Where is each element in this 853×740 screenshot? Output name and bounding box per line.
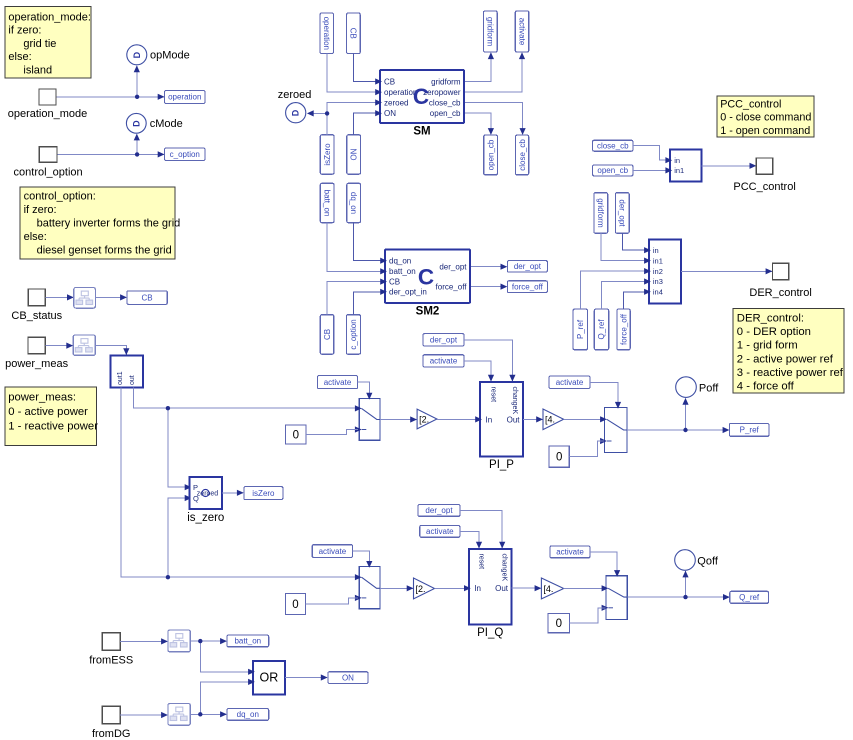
svg-text:dq_on: dq_on bbox=[237, 710, 259, 719]
svg-text:zeroed: zeroed bbox=[278, 89, 312, 101]
svg-text:Q_ref: Q_ref bbox=[739, 593, 760, 602]
svg-text:CB: CB bbox=[323, 329, 332, 340]
svg-text:activate: activate bbox=[556, 378, 584, 387]
svg-text:open_cb: open_cb bbox=[430, 109, 461, 118]
svg-text:ON: ON bbox=[342, 673, 354, 682]
svg-text:SM: SM bbox=[413, 126, 430, 138]
svg-text:operation: operation bbox=[322, 17, 331, 50]
svg-text:is_zero: is_zero bbox=[187, 512, 224, 524]
svg-text:zeroed: zeroed bbox=[197, 491, 219, 498]
svg-text:1 - reactive power: 1 - reactive power bbox=[8, 421, 98, 433]
svg-text:in3: in3 bbox=[653, 277, 663, 286]
svg-text:[2.: [2. bbox=[416, 584, 426, 594]
svg-text:0: 0 bbox=[292, 599, 298, 611]
svg-text:0: 0 bbox=[556, 452, 562, 464]
svg-text:CB: CB bbox=[349, 28, 358, 39]
svg-text:batt_on: batt_on bbox=[389, 267, 416, 276]
svg-text:in: in bbox=[653, 246, 659, 255]
svg-text:control_option:: control_option: bbox=[24, 191, 96, 203]
svg-text:4 - force off: 4 - force off bbox=[737, 381, 795, 393]
svg-text:changeK: changeK bbox=[501, 554, 508, 582]
svg-text:close_cb: close_cb bbox=[429, 98, 461, 107]
svg-text:open_cb: open_cb bbox=[486, 139, 495, 170]
svg-text:gridform: gridform bbox=[486, 17, 495, 47]
svg-text:3 - reactive power ref: 3 - reactive power ref bbox=[737, 367, 844, 379]
svg-text:opMode: opMode bbox=[150, 50, 190, 62]
svg-text:der_opt: der_opt bbox=[618, 199, 627, 227]
svg-text:else:: else: bbox=[8, 51, 31, 63]
svg-text:in1: in1 bbox=[653, 256, 663, 265]
svg-text:activate: activate bbox=[430, 357, 458, 366]
svg-text:reset: reset bbox=[477, 554, 484, 570]
svg-text:grid tie: grid tie bbox=[23, 38, 56, 50]
svg-text:c_option: c_option bbox=[170, 150, 200, 159]
svg-text:fromDG: fromDG bbox=[92, 728, 131, 740]
svg-text:der_opt: der_opt bbox=[514, 262, 542, 271]
svg-text:PI_Q: PI_Q bbox=[477, 627, 503, 639]
svg-text:in1: in1 bbox=[674, 166, 684, 175]
svg-text:OR: OR bbox=[260, 671, 279, 685]
svg-text:operation_mode: operation_mode bbox=[8, 108, 88, 120]
svg-text:CB: CB bbox=[142, 293, 153, 302]
svg-text:ON: ON bbox=[349, 148, 358, 160]
svg-text:0 - DER option: 0 - DER option bbox=[737, 326, 811, 338]
svg-text:[4.: [4. bbox=[545, 415, 555, 425]
svg-text:close_cb: close_cb bbox=[597, 141, 629, 150]
svg-text:activate: activate bbox=[319, 547, 347, 556]
svg-text:P_ref: P_ref bbox=[740, 426, 760, 435]
svg-text:PCC_control: PCC_control bbox=[733, 181, 795, 193]
svg-text:activate: activate bbox=[556, 548, 584, 557]
svg-text:reset: reset bbox=[489, 387, 496, 403]
svg-text:close_cb: close_cb bbox=[518, 139, 527, 171]
svg-text:D: D bbox=[131, 120, 141, 127]
svg-text:CB: CB bbox=[384, 77, 395, 86]
svg-text:Q_ref: Q_ref bbox=[597, 319, 606, 340]
svg-text:PI_P: PI_P bbox=[489, 459, 514, 471]
svg-text:changeK: changeK bbox=[511, 387, 518, 415]
svg-text:island: island bbox=[23, 64, 52, 76]
svg-text:In: In bbox=[474, 584, 481, 593]
svg-text:C: C bbox=[418, 265, 434, 290]
svg-text:dq_on: dq_on bbox=[389, 257, 411, 266]
svg-text:force_off: force_off bbox=[512, 282, 544, 291]
svg-text:dq_on: dq_on bbox=[349, 192, 358, 214]
svg-text:0: 0 bbox=[293, 430, 299, 442]
svg-text:batt_on: batt_on bbox=[234, 637, 261, 646]
svg-text:gridform: gridform bbox=[596, 198, 605, 228]
svg-text:DER_control:: DER_control: bbox=[737, 313, 804, 325]
svg-text:[2.: [2. bbox=[419, 414, 429, 424]
svg-text:SM2: SM2 bbox=[416, 305, 440, 317]
svg-text:diesel genset forms the grid: diesel genset forms the grid bbox=[37, 245, 172, 257]
svg-text:battery inverter forms the gri: battery inverter forms the grid bbox=[37, 218, 181, 230]
svg-text:0: 0 bbox=[556, 618, 562, 630]
svg-text:ON: ON bbox=[384, 109, 396, 118]
svg-text:P_ref: P_ref bbox=[576, 319, 585, 339]
svg-text:activate: activate bbox=[324, 378, 352, 387]
svg-text:1 - grid form: 1 - grid form bbox=[737, 340, 798, 352]
svg-text:c_option: c_option bbox=[349, 319, 358, 349]
svg-text:der_opt: der_opt bbox=[439, 263, 467, 272]
svg-text:cMode: cMode bbox=[150, 118, 183, 130]
svg-text:if zero:: if zero: bbox=[24, 204, 57, 216]
svg-text:CB: CB bbox=[389, 278, 400, 287]
svg-text:PCC_control: PCC_control bbox=[720, 99, 781, 111]
svg-text:fromESS: fromESS bbox=[89, 655, 133, 667]
svg-text:Qoff: Qoff bbox=[697, 555, 719, 567]
svg-text:2 - active power ref: 2 - active power ref bbox=[737, 353, 834, 365]
svg-text:0 - close command: 0 - close command bbox=[720, 112, 811, 124]
svg-text:der_opt: der_opt bbox=[425, 506, 453, 515]
svg-text:[4.: [4. bbox=[543, 584, 553, 594]
svg-text:activate: activate bbox=[426, 527, 454, 536]
svg-text:out: out bbox=[129, 375, 136, 385]
svg-text:batt_on: batt_on bbox=[322, 190, 331, 217]
svg-text:else:: else: bbox=[24, 231, 47, 243]
svg-text:in4: in4 bbox=[653, 288, 663, 297]
svg-text:D: D bbox=[291, 109, 301, 116]
svg-text:C: C bbox=[413, 84, 429, 109]
svg-text:open_cb: open_cb bbox=[597, 166, 628, 175]
svg-text:in2: in2 bbox=[653, 267, 663, 276]
svg-text:In: In bbox=[486, 415, 493, 424]
svg-text:if zero:: if zero: bbox=[8, 25, 41, 37]
svg-text:der_opt: der_opt bbox=[430, 336, 458, 345]
svg-text:zeroed: zeroed bbox=[384, 98, 408, 107]
svg-text:operation: operation bbox=[168, 93, 201, 102]
svg-text:Out: Out bbox=[495, 584, 509, 593]
svg-text:out1: out1 bbox=[117, 371, 124, 385]
svg-text:power_meas:: power_meas: bbox=[8, 392, 76, 404]
svg-text:Out: Out bbox=[507, 415, 521, 424]
svg-text:in: in bbox=[674, 156, 680, 165]
svg-text:0 - active power: 0 - active power bbox=[8, 406, 88, 418]
svg-text:operation_mode:: operation_mode: bbox=[8, 12, 91, 24]
svg-text:D: D bbox=[132, 51, 142, 58]
svg-text:isZero: isZero bbox=[323, 143, 332, 166]
svg-text:Poff: Poff bbox=[699, 383, 719, 395]
svg-text:CB_status: CB_status bbox=[11, 310, 62, 322]
svg-text:power_meas: power_meas bbox=[5, 358, 68, 370]
svg-text:activate: activate bbox=[517, 18, 526, 46]
svg-text:force_off: force_off bbox=[619, 313, 628, 345]
svg-text:isZero: isZero bbox=[252, 489, 275, 498]
svg-text:1 - open command: 1 - open command bbox=[720, 125, 810, 137]
svg-text:control_option: control_option bbox=[14, 167, 83, 179]
svg-text:force_off: force_off bbox=[436, 283, 468, 292]
svg-text:DER_control: DER_control bbox=[749, 287, 811, 299]
svg-text:gridform: gridform bbox=[431, 77, 461, 86]
